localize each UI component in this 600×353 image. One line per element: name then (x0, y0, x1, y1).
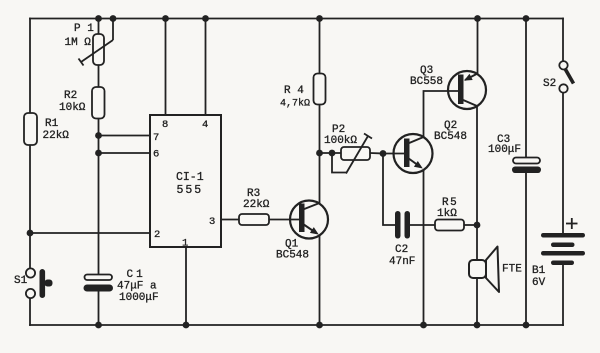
svg-text:FTE: FTE (502, 264, 522, 276)
wire bottom rail ground (30, 324, 563, 326)
resistor R1 (24, 113, 69, 145)
wire Q3 collector down (476, 106, 478, 225)
capacitor C1 (84, 269, 159, 325)
junction dot Q3 emitter top (474, 15, 481, 22)
junction dot pin 8 (162, 15, 169, 22)
junction dot pin6 node (95, 150, 102, 157)
wire R3 to Q1 base (269, 219, 299, 221)
svg-text:6: 6 (153, 149, 159, 161)
svg-text:R 4: R 4 (284, 85, 304, 97)
wire pin 1 to ground (185, 247, 187, 325)
svg-text:C2: C2 (395, 244, 408, 256)
svg-text:10kΩ: 10kΩ (59, 102, 86, 114)
junction dot C3 ground (523, 322, 530, 329)
junction dot pin 2 node (27, 230, 34, 237)
wire C2 to R5 (410, 224, 435, 226)
wire node to pin 7 (99, 135, 151, 137)
svg-text:R2: R2 (64, 90, 77, 102)
junction dot C3 top (523, 15, 530, 22)
svg-text:S1: S1 (14, 275, 28, 287)
resistor R5 (435, 197, 464, 231)
wire left rail upper segment (29, 19, 31, 114)
junction dot Q1 emitter ground (316, 322, 323, 329)
speaker FTE (469, 225, 522, 325)
wire node to pin 6 (99, 152, 151, 154)
junction dot node R4/Q1/P2 (316, 150, 323, 157)
svg-text:47nF: 47nF (389, 256, 415, 268)
wire right rail top to S2 (562, 19, 564, 62)
wire pin 8 to V+ (165, 19, 167, 116)
pushbutton S1 (14, 268, 53, 298)
transistor Q2 BC548 (394, 120, 468, 173)
wire Q2 base node down to C2 (383, 154, 395, 226)
svg-text:CI-1: CI-1 (176, 171, 204, 184)
junction dot Q2 base node (380, 150, 387, 157)
svg-text:100μF: 100μF (488, 144, 521, 156)
junction dot P1 top (95, 15, 102, 22)
svg-text:3: 3 (209, 216, 215, 228)
svg-text:1000μF: 1000μF (119, 292, 159, 304)
svg-text:7: 7 (153, 132, 159, 144)
wire Q1 collector to node (319, 153, 321, 203)
junction dot Q2 emitter ground (420, 322, 427, 329)
junction dot R5/Q3/speaker node (474, 222, 481, 229)
wire pin 2 to R1/S1 node (30, 232, 150, 234)
junction dot pin 1 (183, 322, 190, 329)
junction dot P2 wiper return (329, 150, 336, 157)
wire Q1 emitter to ground (319, 236, 321, 325)
wire Q2 collector to Q3 base (424, 91, 459, 137)
svg-text:8: 8 (162, 119, 168, 131)
capacitor C3 (488, 19, 541, 326)
svg-text:S2: S2 (543, 78, 556, 90)
wire Q2 emitter to ground (423, 170, 425, 325)
svg-text:B1: B1 (532, 265, 546, 277)
svg-text:C1: C1 (127, 269, 146, 281)
junction dot P1 wiper top (110, 15, 117, 22)
svg-text:4,7kΩ: 4,7kΩ (280, 98, 310, 110)
junction dot speaker ground (474, 322, 481, 329)
potentiometer P1 (65, 19, 114, 66)
svg-text:1kΩ: 1kΩ (437, 208, 457, 220)
transistor Q3 BC558 (410, 65, 486, 109)
switch S2 (543, 61, 574, 93)
wire R2 to C1 vertical (98, 119, 100, 275)
svg-text:22kΩ: 22kΩ (243, 199, 270, 211)
potentiometer P2 (320, 124, 384, 174)
junction dot pin7 node (95, 132, 102, 139)
svg-text:4: 4 (202, 119, 208, 131)
svg-text:22kΩ: 22kΩ (43, 130, 70, 142)
wire pin 3 stub (221, 219, 239, 221)
svg-text:R1: R1 (45, 118, 59, 130)
resistor R3 (239, 188, 270, 225)
svg-text:BC558: BC558 (410, 76, 443, 88)
svg-text:555: 555 (177, 184, 204, 197)
wire right rail battery to bottom (562, 265, 564, 325)
wire left rail lower segment (29, 299, 31, 326)
transistor Q1 BC548 (276, 201, 328, 262)
wire node to Q2 base (383, 153, 404, 155)
wire top rail V+ (30, 18, 563, 20)
resistor R2 (59, 65, 105, 119)
svg-text:6V: 6V (532, 277, 546, 289)
svg-text:P 1: P 1 (74, 23, 94, 35)
svg-text:47μF a: 47μF a (117, 281, 157, 293)
svg-text:1M Ω: 1M Ω (65, 37, 92, 49)
wire R5 to speaker node (464, 224, 477, 226)
wire pin 4 to V+ (205, 19, 207, 116)
svg-text:BC548: BC548 (434, 131, 467, 143)
resistor R4 (280, 19, 326, 154)
svg-text:100kΩ: 100kΩ (324, 135, 357, 147)
junction dot R4 top (316, 15, 323, 22)
svg-text:2: 2 (154, 229, 160, 241)
junction dot C1 ground (95, 322, 102, 329)
junction dot pin 4 (202, 15, 209, 22)
svg-text:BC548: BC548 (276, 250, 309, 262)
wire Q3 emitter to V+ (477, 19, 479, 75)
IC U1 CI-1 555 timer (150, 115, 221, 250)
battery B1 (532, 218, 585, 289)
wire right rail S2 to battery (562, 93, 564, 233)
capacitor C2 (389, 211, 415, 268)
wire left rail mid segment (29, 145, 31, 268)
